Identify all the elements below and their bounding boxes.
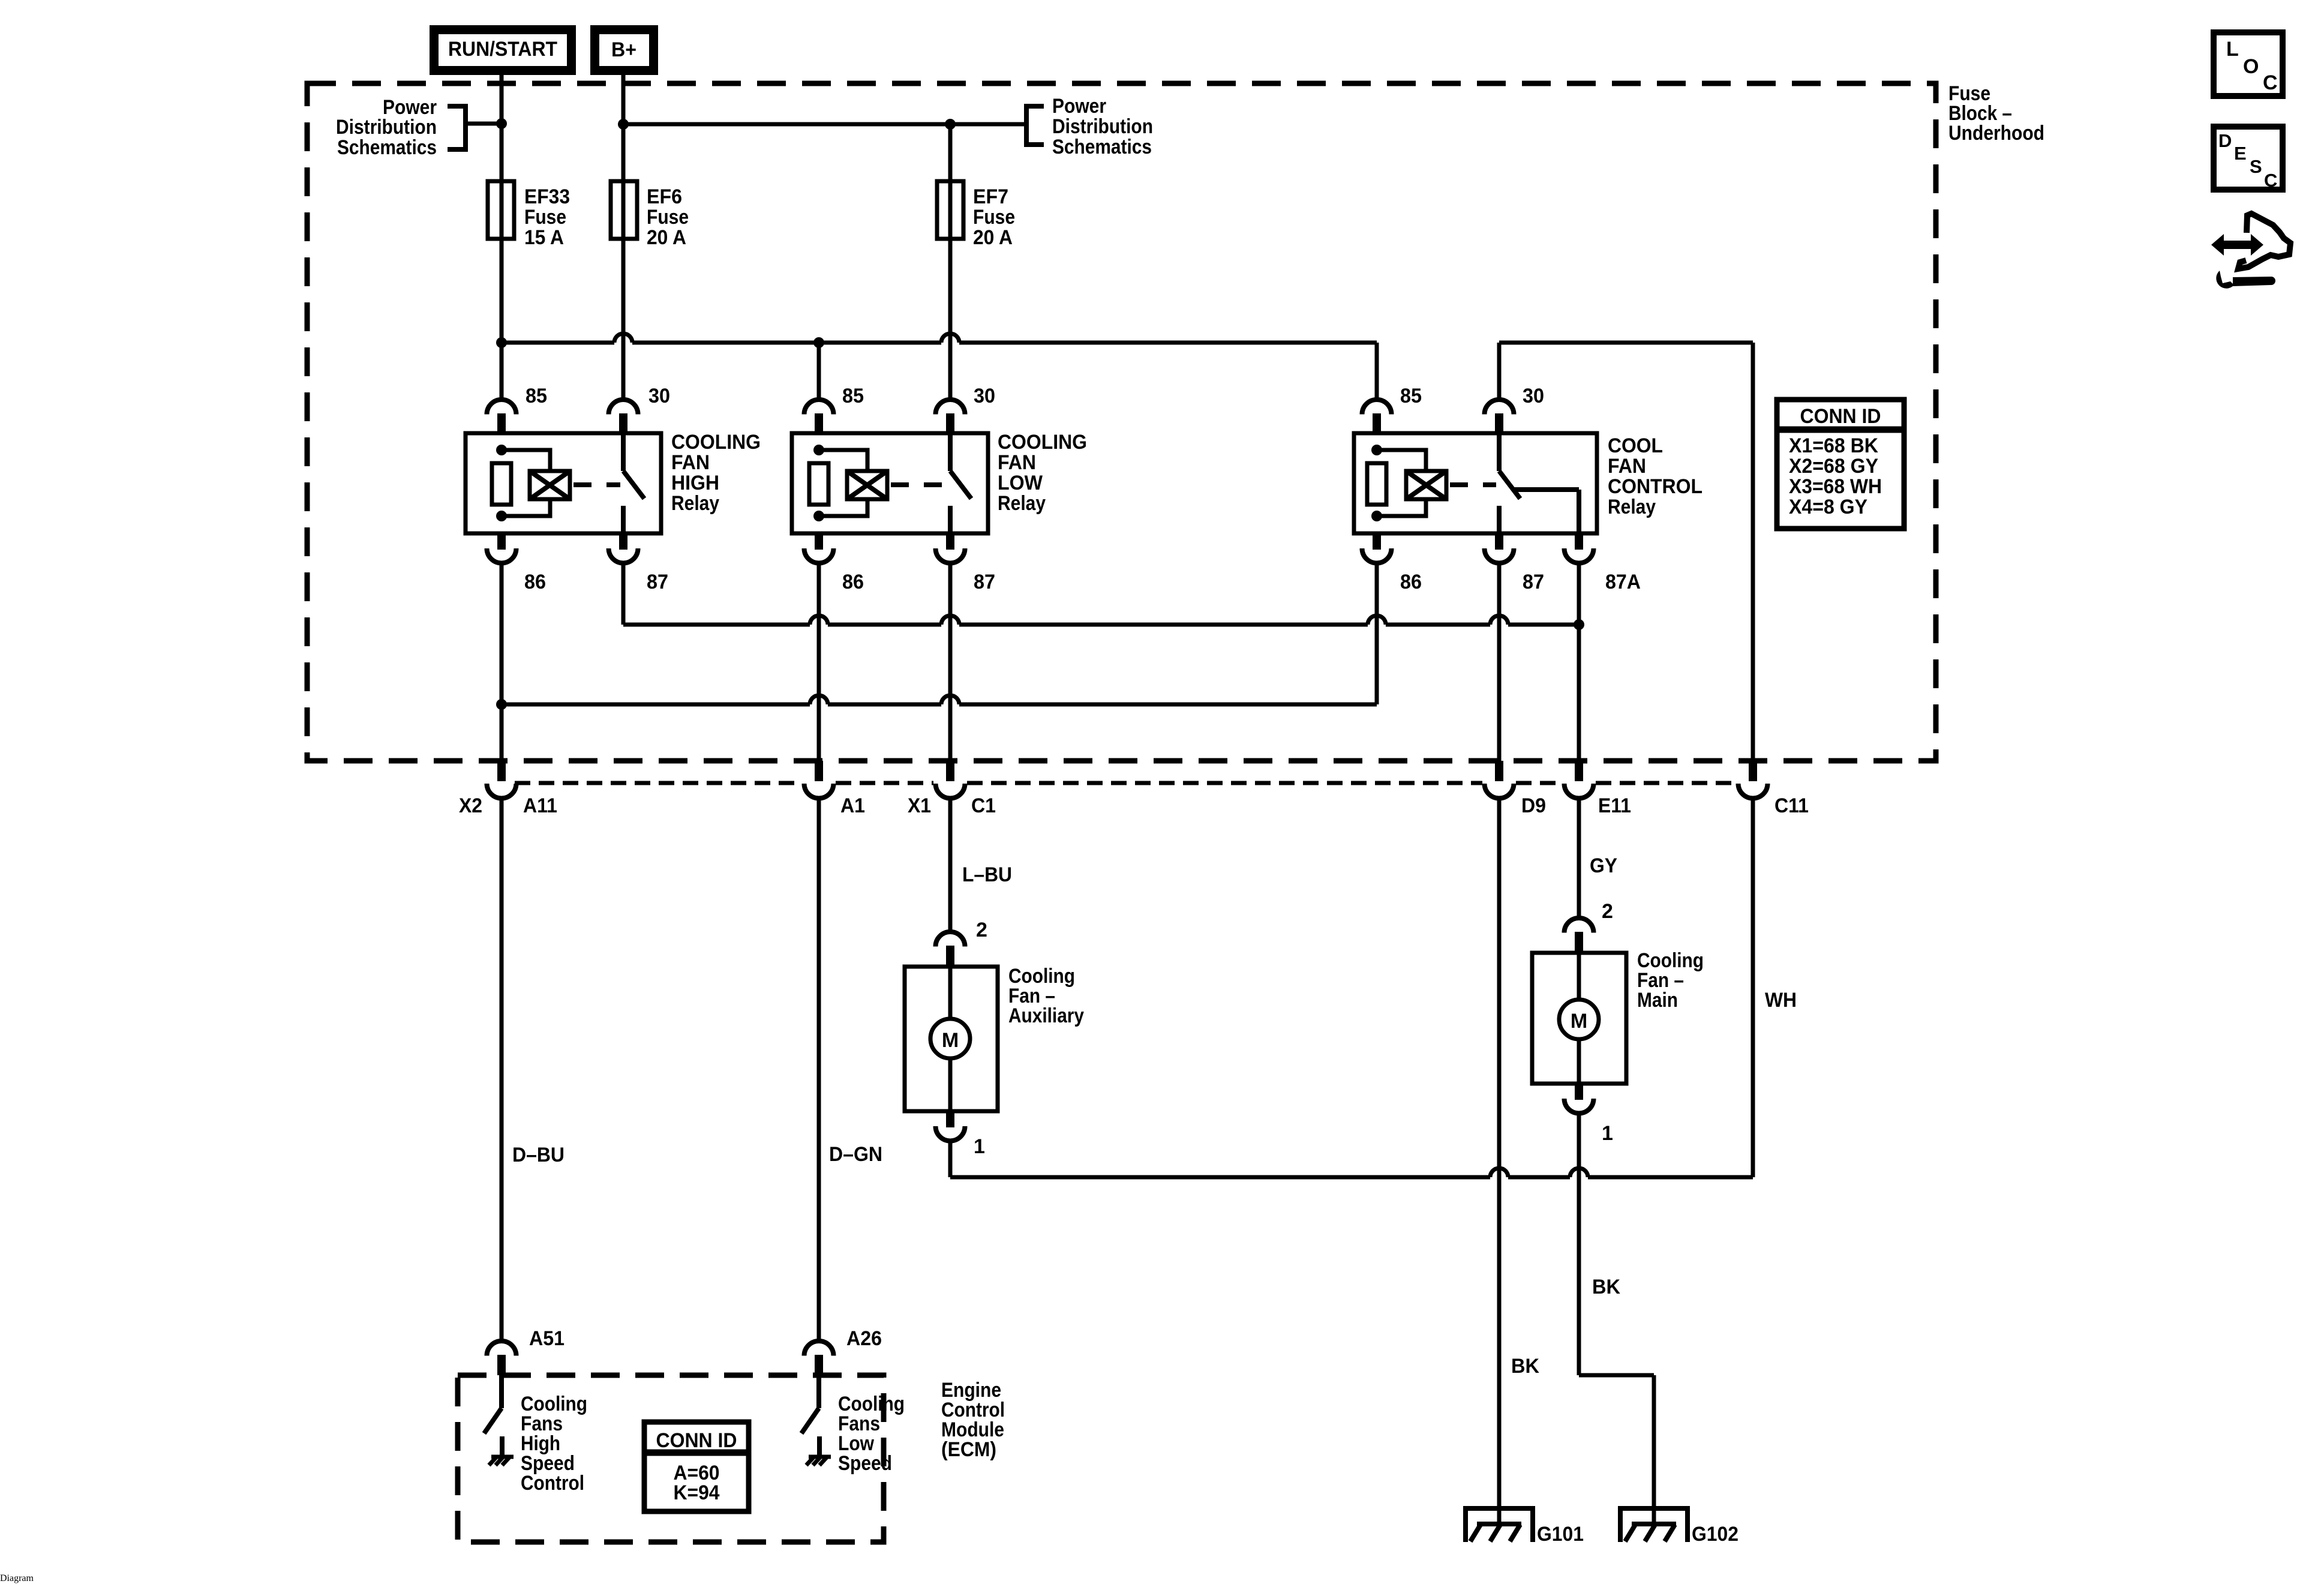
svg-text:Fuse: Fuse [524, 206, 566, 229]
svg-text:BK: BK [1511, 1355, 1539, 1378]
relay U2 coil loop wire [819, 450, 867, 516]
svg-text:85: 85 [526, 385, 547, 407]
relay U3 COOL FAN CONTROL box [1354, 433, 1597, 533]
fuse EF33 [488, 181, 514, 239]
relay U3 solenoid coil [1406, 471, 1446, 499]
connector pin 1 auxiliary fan [936, 1111, 965, 1141]
svg-text:87A: 87A [1605, 571, 1641, 593]
connector X2 A11 [487, 761, 517, 799]
relay U2 switch blade [950, 433, 971, 533]
wire WH C11 to fan return bus [1751, 798, 1755, 1177]
svg-text:X4=8 GY: X4=8 GY [1789, 496, 1867, 518]
svg-text:EF6: EF6 [647, 185, 682, 208]
relay U3 coil loop wire [1377, 450, 1426, 516]
wire 85 rail from EF33 to relays [502, 334, 1377, 343]
CONN ID table ECM [644, 1422, 749, 1511]
svg-text:C1: C1 [971, 794, 996, 817]
relay U1 coil resistor [492, 463, 511, 505]
svg-text:X1: X1 [908, 794, 931, 817]
relay U3 switch blade to 87A [1499, 433, 1579, 533]
svg-text:G102: G102 [1692, 1523, 1739, 1546]
svg-text:COOLING: COOLING [998, 431, 1087, 454]
svg-text:CONTROL: CONTROL [1608, 475, 1703, 498]
wire RUN/START column (EF33 feed) [500, 75, 504, 400]
svg-text:30: 30 [1523, 385, 1544, 407]
svg-text:LOW: LOW [998, 472, 1043, 494]
RUN/START power box [434, 30, 572, 71]
svg-text:Underhood: Underhood [1948, 122, 2044, 145]
relay U1 COOLING FAN HIGH box [466, 433, 661, 533]
icon double arrow [2211, 234, 2263, 256]
relay U2 solenoid coil [847, 471, 887, 499]
svg-text:Distribution: Distribution [336, 116, 437, 139]
wire BK D9 to G101 [1497, 798, 1502, 1525]
wire EF7 column [948, 124, 953, 400]
relay U2 COOLING FAN LOW box [792, 433, 988, 533]
svg-text:EF33: EF33 [524, 185, 570, 208]
svg-text:X3=68 WH: X3=68 WH [1789, 475, 1882, 498]
connector pin 30 relay U1 [609, 400, 638, 433]
svg-text:FAN: FAN [671, 451, 710, 474]
connector pin 87 relay U2 [936, 533, 965, 563]
svg-text:87: 87 [974, 571, 995, 593]
svg-text:85: 85 [1400, 385, 1422, 407]
svg-text:Power: Power [1052, 95, 1106, 118]
svg-text:GY: GY [1590, 854, 1617, 877]
connector E11 [1565, 761, 1594, 799]
wire relay2 85 drop [817, 343, 821, 400]
right bracket power distribution schematics [1026, 106, 1044, 145]
svg-text:20 A: 20 A [973, 226, 1013, 249]
svg-text:A26: A26 [846, 1327, 882, 1350]
svg-text:COOLING: COOLING [671, 431, 761, 454]
ground G101 [1466, 1508, 1533, 1542]
svg-text:O: O [2243, 55, 2259, 78]
node junction relay1 86 at 86 bus [496, 699, 507, 710]
connector pin 1 main fan [1565, 1084, 1594, 1114]
svg-text:A1: A1 [840, 794, 865, 817]
relay U2 coil resistor [809, 463, 828, 505]
connector row dotted line [515, 781, 1736, 785]
connector pin 87 relay U3 [1485, 533, 1514, 563]
node relay U2 coil bottom junction [813, 511, 824, 521]
svg-text:RUN/START: RUN/START [448, 38, 557, 61]
svg-text:S: S [2250, 156, 2262, 177]
svg-text:HIGH: HIGH [671, 472, 719, 494]
svg-text:86: 86 [1400, 571, 1422, 593]
svg-text:D9: D9 [1521, 794, 1546, 817]
wire relay3 30 drop [1497, 343, 1502, 400]
connector pin 86 relay U2 [804, 533, 834, 563]
svg-text:E11: E11 [1598, 794, 1631, 817]
svg-text:COOL: COOL [1608, 434, 1663, 457]
relay U1 solenoid coil [530, 471, 570, 499]
svg-text:G101: G101 [1537, 1523, 1584, 1546]
relay U1 coil-switch dashed link [574, 482, 620, 487]
wire relay3 30 feed from C11 riser [1499, 341, 1753, 345]
wire relay3 87 down to D9 connector [1497, 563, 1502, 761]
switch cooling fans low speed [801, 1375, 819, 1456]
svg-text:87: 87 [1523, 571, 1544, 593]
connector pin 87 relay U1 [609, 533, 638, 563]
connector pin 2 auxiliary fan [936, 932, 965, 967]
connector pin 86 relay U1 [487, 533, 517, 563]
wire relay1 86 down to X2 connector [500, 563, 504, 761]
connector X1 C1 [936, 761, 965, 799]
relay U1 switch blade [623, 433, 644, 533]
connector pin 2 main fan [1565, 918, 1594, 953]
connector D9 [1485, 761, 1514, 799]
switch cooling fans high speed control [484, 1375, 502, 1456]
connector A51 [487, 1341, 517, 1375]
ground internal ECM switch 2 [806, 1457, 831, 1465]
LOC icon box [2214, 32, 2283, 96]
connector pin 30 relay U2 [936, 400, 965, 433]
svg-text:M: M [942, 1029, 959, 1052]
node relay U1 coil top junction [496, 445, 507, 455]
svg-text:Relay: Relay [671, 492, 719, 515]
svg-text:X2=68 GY: X2=68 GY [1789, 455, 1878, 478]
wire main fan return to G102 [1579, 1113, 1654, 1525]
svg-text:A51: A51 [529, 1327, 565, 1350]
wire auxiliary fan return [948, 1141, 953, 1177]
wire relay1 87 down [621, 563, 626, 625]
ECM dashed box [458, 1375, 884, 1542]
wire D-GN A1 to ECM A26 [817, 798, 821, 1341]
relay U1 coil loop wire [502, 450, 550, 516]
svg-text:EF7: EF7 [973, 185, 1008, 208]
wire left power distribution to RUN/START column [468, 122, 502, 126]
wire B+ column (EF6 feed) [621, 75, 626, 400]
wire GY E11 to main fan [1577, 798, 1581, 918]
svg-text:Fuse: Fuse [647, 206, 689, 229]
connector pin 85 relay U2 [804, 400, 834, 433]
svg-text:Fuse: Fuse [973, 206, 1015, 229]
wire relay2 86 down to A1 connector [817, 563, 821, 761]
wire relay3 85 drop [1375, 343, 1379, 400]
svg-text:X2: X2 [459, 794, 482, 817]
wire B+ rail to EF7 and right bracket [623, 122, 1024, 127]
svg-text:C: C [2263, 71, 2278, 94]
svg-text:D: D [2218, 130, 2232, 151]
fuse EF7 [937, 181, 963, 239]
svg-text:E: E [2234, 143, 2247, 164]
svg-text:M: M [1571, 1010, 1587, 1033]
connector pin 86 relay U3 [1362, 533, 1392, 563]
svg-text:FAN: FAN [1608, 455, 1646, 478]
motor M1 cooling fan auxiliary [905, 967, 998, 1111]
svg-text:C11: C11 [1774, 794, 1809, 817]
svg-text:85: 85 [842, 385, 864, 407]
svg-text:Speed: Speed [838, 1452, 892, 1475]
node junction B+ rail [618, 119, 629, 130]
svg-text:CONN ID: CONN ID [1800, 405, 1881, 428]
svg-text:1: 1 [1602, 1122, 1613, 1145]
icon wrench [2216, 271, 2275, 289]
svg-text:L–BU: L–BU [962, 863, 1012, 886]
connector pin 85 relay U3 [1362, 400, 1392, 433]
svg-text:86: 86 [524, 571, 546, 593]
svg-text:K=94: K=94 [674, 1481, 720, 1504]
B+ power box [595, 30, 654, 71]
svg-text:Schematics: Schematics [337, 136, 437, 159]
svg-text:C: C [2264, 170, 2277, 191]
node relay U3 coil bottom junction [1371, 511, 1382, 521]
wire 86 bus relay1 to relay3 [502, 695, 1377, 704]
svg-text:B+: B+ [611, 38, 636, 61]
connector pin 87A relay U3 [1565, 533, 1594, 563]
node junction EF33 to 85 rail [496, 337, 507, 348]
svg-text:BK: BK [1592, 1276, 1620, 1298]
svg-text:2: 2 [1602, 900, 1613, 923]
ground internal ECM switch 1 [489, 1457, 514, 1465]
svg-text:Distribution: Distribution [1052, 115, 1153, 138]
svg-text:Relay: Relay [998, 492, 1046, 515]
wire C11 riser [1751, 343, 1755, 761]
svg-text:Auxiliary: Auxiliary [1008, 1004, 1084, 1027]
svg-text:L: L [2226, 38, 2239, 61]
fuse EF6 [611, 181, 637, 239]
node relay U3 coil top junction [1371, 445, 1382, 455]
connector pin 85 relay U1 [487, 400, 517, 433]
node junction relay2 85 [813, 337, 824, 348]
svg-text:Relay: Relay [1608, 496, 1656, 518]
svg-text:1: 1 [974, 1135, 985, 1158]
svg-text:Schematics: Schematics [1052, 136, 1152, 158]
wire D-BU X2 to ECM A51 [500, 798, 504, 1341]
connector pin 30 relay U3 [1485, 400, 1514, 433]
relay U3 coil-switch dashed link [1450, 482, 1496, 487]
connector A26 [804, 1341, 834, 1375]
wire fan return bus to C11 WH [950, 1168, 1753, 1177]
left bracket power distribution schematics [448, 106, 466, 149]
svg-text:87: 87 [647, 571, 668, 593]
wire relay3 87A down to E11 connector [1577, 563, 1581, 761]
svg-text:(ECM): (ECM) [941, 1438, 996, 1461]
connector A1 [804, 761, 834, 799]
svg-text:D–GN: D–GN [829, 1143, 882, 1166]
ground G102 [1620, 1508, 1688, 1542]
svg-text:20 A: 20 A [647, 226, 686, 249]
svg-text:86: 86 [842, 571, 864, 593]
svg-text:FAN: FAN [998, 451, 1036, 474]
motor M2 cooling fan main [1532, 953, 1626, 1084]
wire L-BU C1 to auxiliary fan [948, 798, 953, 932]
fuse block underhood dashed box [307, 83, 1936, 761]
relay U2 coil-switch dashed link [891, 482, 947, 487]
node junction RUN/START column at power distribution [496, 118, 507, 129]
svg-text:30: 30 [974, 385, 995, 407]
icon page jump outline [2238, 214, 2290, 269]
node relay U2 coil top junction [813, 445, 824, 455]
node relay U1 coil bottom junction [496, 511, 507, 521]
node junction EF7 top [945, 119, 956, 130]
node junction 87 bus at relay3 87A wire [1574, 619, 1584, 630]
svg-text:Main: Main [1637, 989, 1678, 1012]
DESC icon box [2214, 127, 2283, 191]
svg-text:A11: A11 [523, 794, 557, 817]
svg-text:2: 2 [976, 919, 987, 941]
svg-text:Control: Control [521, 1472, 584, 1495]
svg-text:15 A: 15 A [524, 226, 564, 249]
svg-text:CONN ID: CONN ID [656, 1429, 737, 1452]
svg-text:D–BU: D–BU [512, 1144, 565, 1166]
svg-text:WH: WH [1765, 989, 1797, 1012]
wire 87 bus to relay3 87A [623, 616, 1579, 625]
svg-text:30: 30 [648, 385, 670, 407]
relay U3 coil resistor [1367, 463, 1386, 505]
CONN ID table fuse block [1777, 400, 1904, 529]
wire relay3 86 drop to 86 bus [1375, 563, 1379, 704]
svg-text:X1=68 BK: X1=68 BK [1789, 434, 1878, 457]
connector C11 [1739, 761, 1768, 799]
wire relay2 87 down to X1 C1 connector [948, 563, 953, 761]
